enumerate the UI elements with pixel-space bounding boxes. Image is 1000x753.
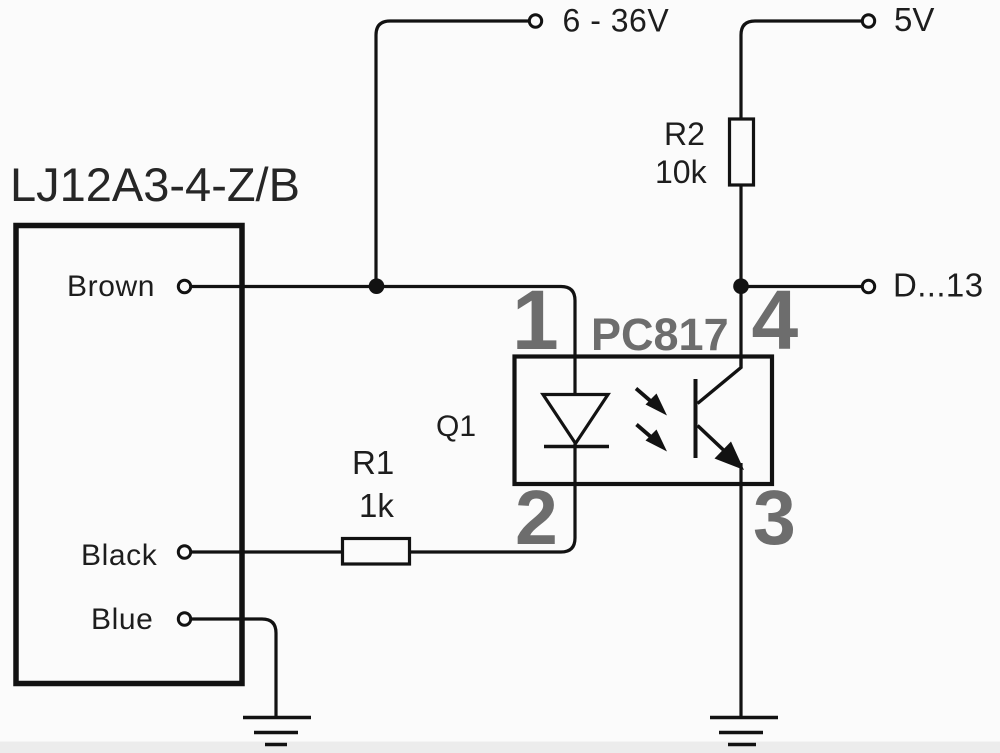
wire Blue to ground [191,619,276,716]
svg-text:Q1: Q1 [436,410,476,443]
svg-text:R2: R2 [664,116,705,152]
svg-text:5V: 5V [894,1,934,38]
light arrow 1 [636,389,667,416]
junction R2/output [733,278,749,294]
terminal Black [178,546,190,558]
LED D1 cathode bar [544,445,609,449]
svg-text:6 - 36V: 6 - 36V [563,3,670,39]
LED D1 anode vertical [573,357,576,395]
wire 6-36V supply riser [376,21,529,287]
resistor R1 [343,539,410,565]
bottom gray band [0,742,1000,753]
terminal 5V [862,15,874,27]
svg-text:3: 3 [753,475,796,561]
terminal 6-36V [529,15,541,27]
wire output D13 [748,285,862,288]
svg-text:Brown: Brown [67,270,155,303]
transistor emitter arrowhead [715,442,745,471]
svg-text:R1: R1 [352,444,394,481]
svg-text:Blue: Blue [91,603,153,636]
wire 5V to R2 [741,21,862,119]
svg-text:PC817: PC817 [591,309,729,360]
wire Black to R1 [191,550,341,553]
transistor collector [698,356,742,404]
terminal Blue [178,613,190,625]
transistor emitter [698,426,734,460]
transistor base bar [694,379,698,458]
svg-text:2: 2 [515,475,558,561]
terminal Brown [178,280,190,292]
junction supply/Brown [369,278,385,294]
ground right [710,718,778,745]
svg-text:10k: 10k [655,154,708,190]
svg-text:LJ12A3-4-Z/B: LJ12A3-4-Z/B [10,158,300,211]
svg-text:D...13: D...13 [893,267,983,304]
svg-text:1: 1 [512,273,559,367]
wire opto pin 2 to R1 [410,444,575,553]
LED D1 triangle [543,395,608,444]
wire opto pin 3 to ground [739,463,742,716]
ground left [243,718,311,745]
svg-text:1k: 1k [359,487,394,524]
sensor U1 LJ12A3-4-Z/B box [16,226,242,684]
resistor R2 [730,119,754,185]
light arrow 2 [637,425,668,452]
terminal D...13 [862,280,874,292]
wire R2 to opto pin 4 [739,185,742,368]
wire Brown to opto pin 1 [191,287,575,395]
svg-text:4: 4 [752,273,799,367]
svg-text:Black: Black [81,539,158,572]
opto-coupler Q1 PC817 body [515,357,773,485]
